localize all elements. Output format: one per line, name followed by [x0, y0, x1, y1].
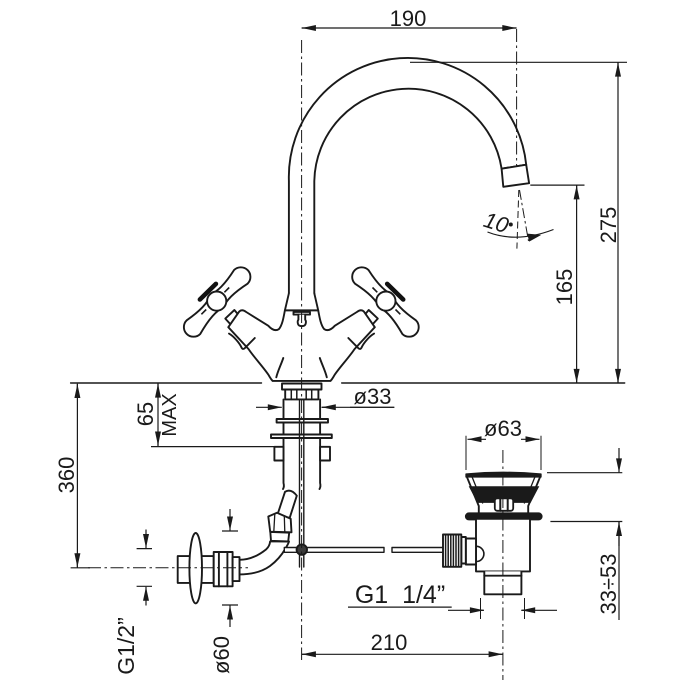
faucet body with port bonnets	[228, 310, 374, 381]
svg-text:360: 360	[54, 457, 79, 494]
left tab	[274, 447, 283, 461]
horizontal pop-up linkage rod	[284, 548, 444, 553]
threaded shank	[283, 399, 320, 489]
right hidden arm tip	[348, 334, 374, 349]
drain band locknut	[466, 513, 543, 520]
svg-text:ø63: ø63	[484, 416, 522, 441]
dim 165 line	[530, 184, 584, 186]
drain funnel dark cone	[469, 486, 540, 503]
drain body	[476, 520, 530, 572]
supply nut collar	[270, 532, 289, 542]
dim o63	[468, 438, 487, 440]
wall nipple	[178, 556, 214, 583]
left handle neck	[225, 310, 239, 325]
drain tailpiece	[484, 571, 521, 594]
drain knurl ring	[461, 537, 466, 564]
svg-text:MAX: MAX	[159, 393, 181, 436]
clevis joint	[297, 544, 307, 554]
svg-text:65: 65	[133, 402, 158, 426]
dim 190	[302, 27, 517, 29]
handle caps	[200, 284, 403, 300]
angle arc 10deg	[488, 230, 554, 238]
dim 360	[76, 384, 78, 398]
body inner curve left	[276, 358, 283, 377]
svg-text:ø33: ø33	[354, 384, 392, 409]
spout gooseneck tube	[289, 58, 526, 294]
body inner curve right	[320, 358, 327, 377]
body flare under riser	[285, 293, 318, 310]
faucet vertical axis	[301, 40, 303, 660]
washer 2	[271, 435, 332, 439]
supply pipe elbow	[240, 541, 290, 574]
o33 underline	[350, 406, 394, 408]
svg-text:190: 190	[390, 6, 427, 31]
dim o33	[256, 406, 282, 408]
mounting hex nut	[285, 390, 318, 400]
union tail cylinder	[233, 557, 240, 581]
drain plug guide	[495, 498, 513, 510]
upper arm bone	[352, 267, 392, 307]
water stream 10 deg axis	[520, 190, 529, 241]
right handle neck	[364, 310, 378, 325]
supply union nut	[268, 513, 291, 533]
dim G1/2 arrows	[145, 530, 147, 549]
washer 1	[277, 419, 328, 423]
handle arm ticks	[201, 288, 400, 315]
collar below deck	[282, 384, 322, 390]
spout outlet axis	[516, 29, 518, 166]
dim 33-53	[547, 473, 622, 522]
supply pipe upper	[277, 491, 297, 518]
svg-text:ø60: ø60	[209, 636, 234, 674]
dim 65 MAX	[157, 384, 159, 398]
svg-text:G1 1/4”: G1 1/4”	[355, 581, 445, 609]
dim 210	[302, 653, 503, 655]
drain flange cap	[466, 472, 541, 477]
svg-text:10: 10	[481, 207, 512, 238]
right handle	[352, 267, 419, 336]
pop-up rod knob on body	[294, 312, 311, 315]
hub	[376, 292, 395, 311]
lower arm bone	[379, 296, 418, 337]
knurled nut	[443, 535, 461, 567]
pop-up lift rod	[300, 399, 304, 567]
left handle	[184, 267, 251, 336]
drain funnel sides	[467, 477, 540, 513]
drain side inlet box	[466, 539, 476, 565]
knurl hatching	[446, 535, 459, 567]
svg-text:275: 275	[596, 207, 621, 244]
dim G1 1/4 underline	[348, 606, 452, 608]
centerlines	[88, 29, 529, 680]
drain vertical axis	[502, 450, 504, 680]
svg-text:33÷53: 33÷53	[596, 553, 621, 614]
right tab	[320, 447, 330, 461]
svg-text:165: 165	[552, 269, 577, 306]
dimensions	[71, 28, 627, 654]
deck reference line	[71, 382, 625, 384]
drain body inlet arc	[476, 546, 484, 561]
spout aerator tip	[502, 165, 529, 187]
dim 275 line	[410, 61, 627, 63]
dim o60 arrows	[229, 509, 231, 531]
svg-text:G1/2”: G1/2”	[113, 617, 139, 675]
wall flange	[189, 533, 202, 603]
union hex nut	[214, 552, 233, 586]
left hidden arm tip	[229, 334, 255, 349]
svg-text:210: 210	[371, 630, 408, 655]
supply horizontal axis	[88, 567, 248, 569]
